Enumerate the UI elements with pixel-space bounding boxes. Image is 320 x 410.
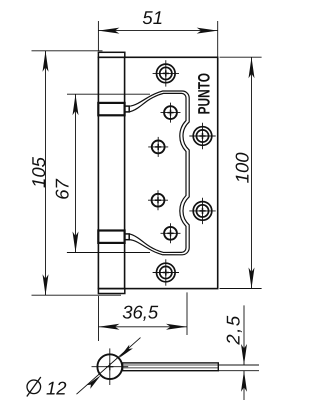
svg-text:2,5: 2,5 — [223, 314, 244, 345]
lower beak tab — [125, 234, 130, 240]
barrel circle side view — [92, 348, 129, 385]
leaf contour outline — [129, 91, 189, 255]
hinge leaf plate — [98, 57, 217, 288]
dim 67 — [67, 94, 150, 252]
leaf interface line — [123, 364, 219, 366]
svg-text:51: 51 — [142, 7, 163, 28]
boss hole upper right — [189, 123, 215, 149]
plain hole a — [161, 103, 181, 123]
lower knuckle sleeve — [98, 231, 124, 243]
barrel bottom cap — [98, 289, 124, 294]
upper beak tab — [125, 106, 130, 112]
dim 36.5 — [99, 292, 188, 341]
upper knuckle sleeve — [98, 103, 124, 115]
svg-text:PUNTO: PUNTO — [196, 73, 214, 114]
dim 100 — [220, 57, 262, 288]
svg-text:12: 12 — [46, 378, 67, 399]
screw hole bottom — [153, 259, 179, 285]
dim 105 — [32, 51, 122, 295]
plain hole b — [148, 137, 168, 157]
plain hole c — [148, 190, 168, 210]
plain hole d — [161, 223, 181, 243]
leaf side bar — [123, 363, 219, 371]
phi symbol — [27, 377, 41, 397]
diameter leader line — [77, 338, 141, 395]
svg-text:100: 100 — [232, 152, 253, 184]
diameter arrow lower — [87, 375, 101, 389]
barrel column right edge — [124, 57, 126, 288]
svg-text:67: 67 — [52, 179, 73, 200]
boss hole lower right — [189, 198, 215, 224]
barrel top cap — [98, 52, 124, 57]
svg-text:105: 105 — [28, 156, 49, 188]
dim 51 — [98, 21, 217, 57]
svg-text:36,5: 36,5 — [122, 302, 159, 323]
diameter arrow upper — [119, 345, 133, 359]
screw hole top — [153, 60, 179, 86]
dim 2.5 — [218, 305, 259, 400]
